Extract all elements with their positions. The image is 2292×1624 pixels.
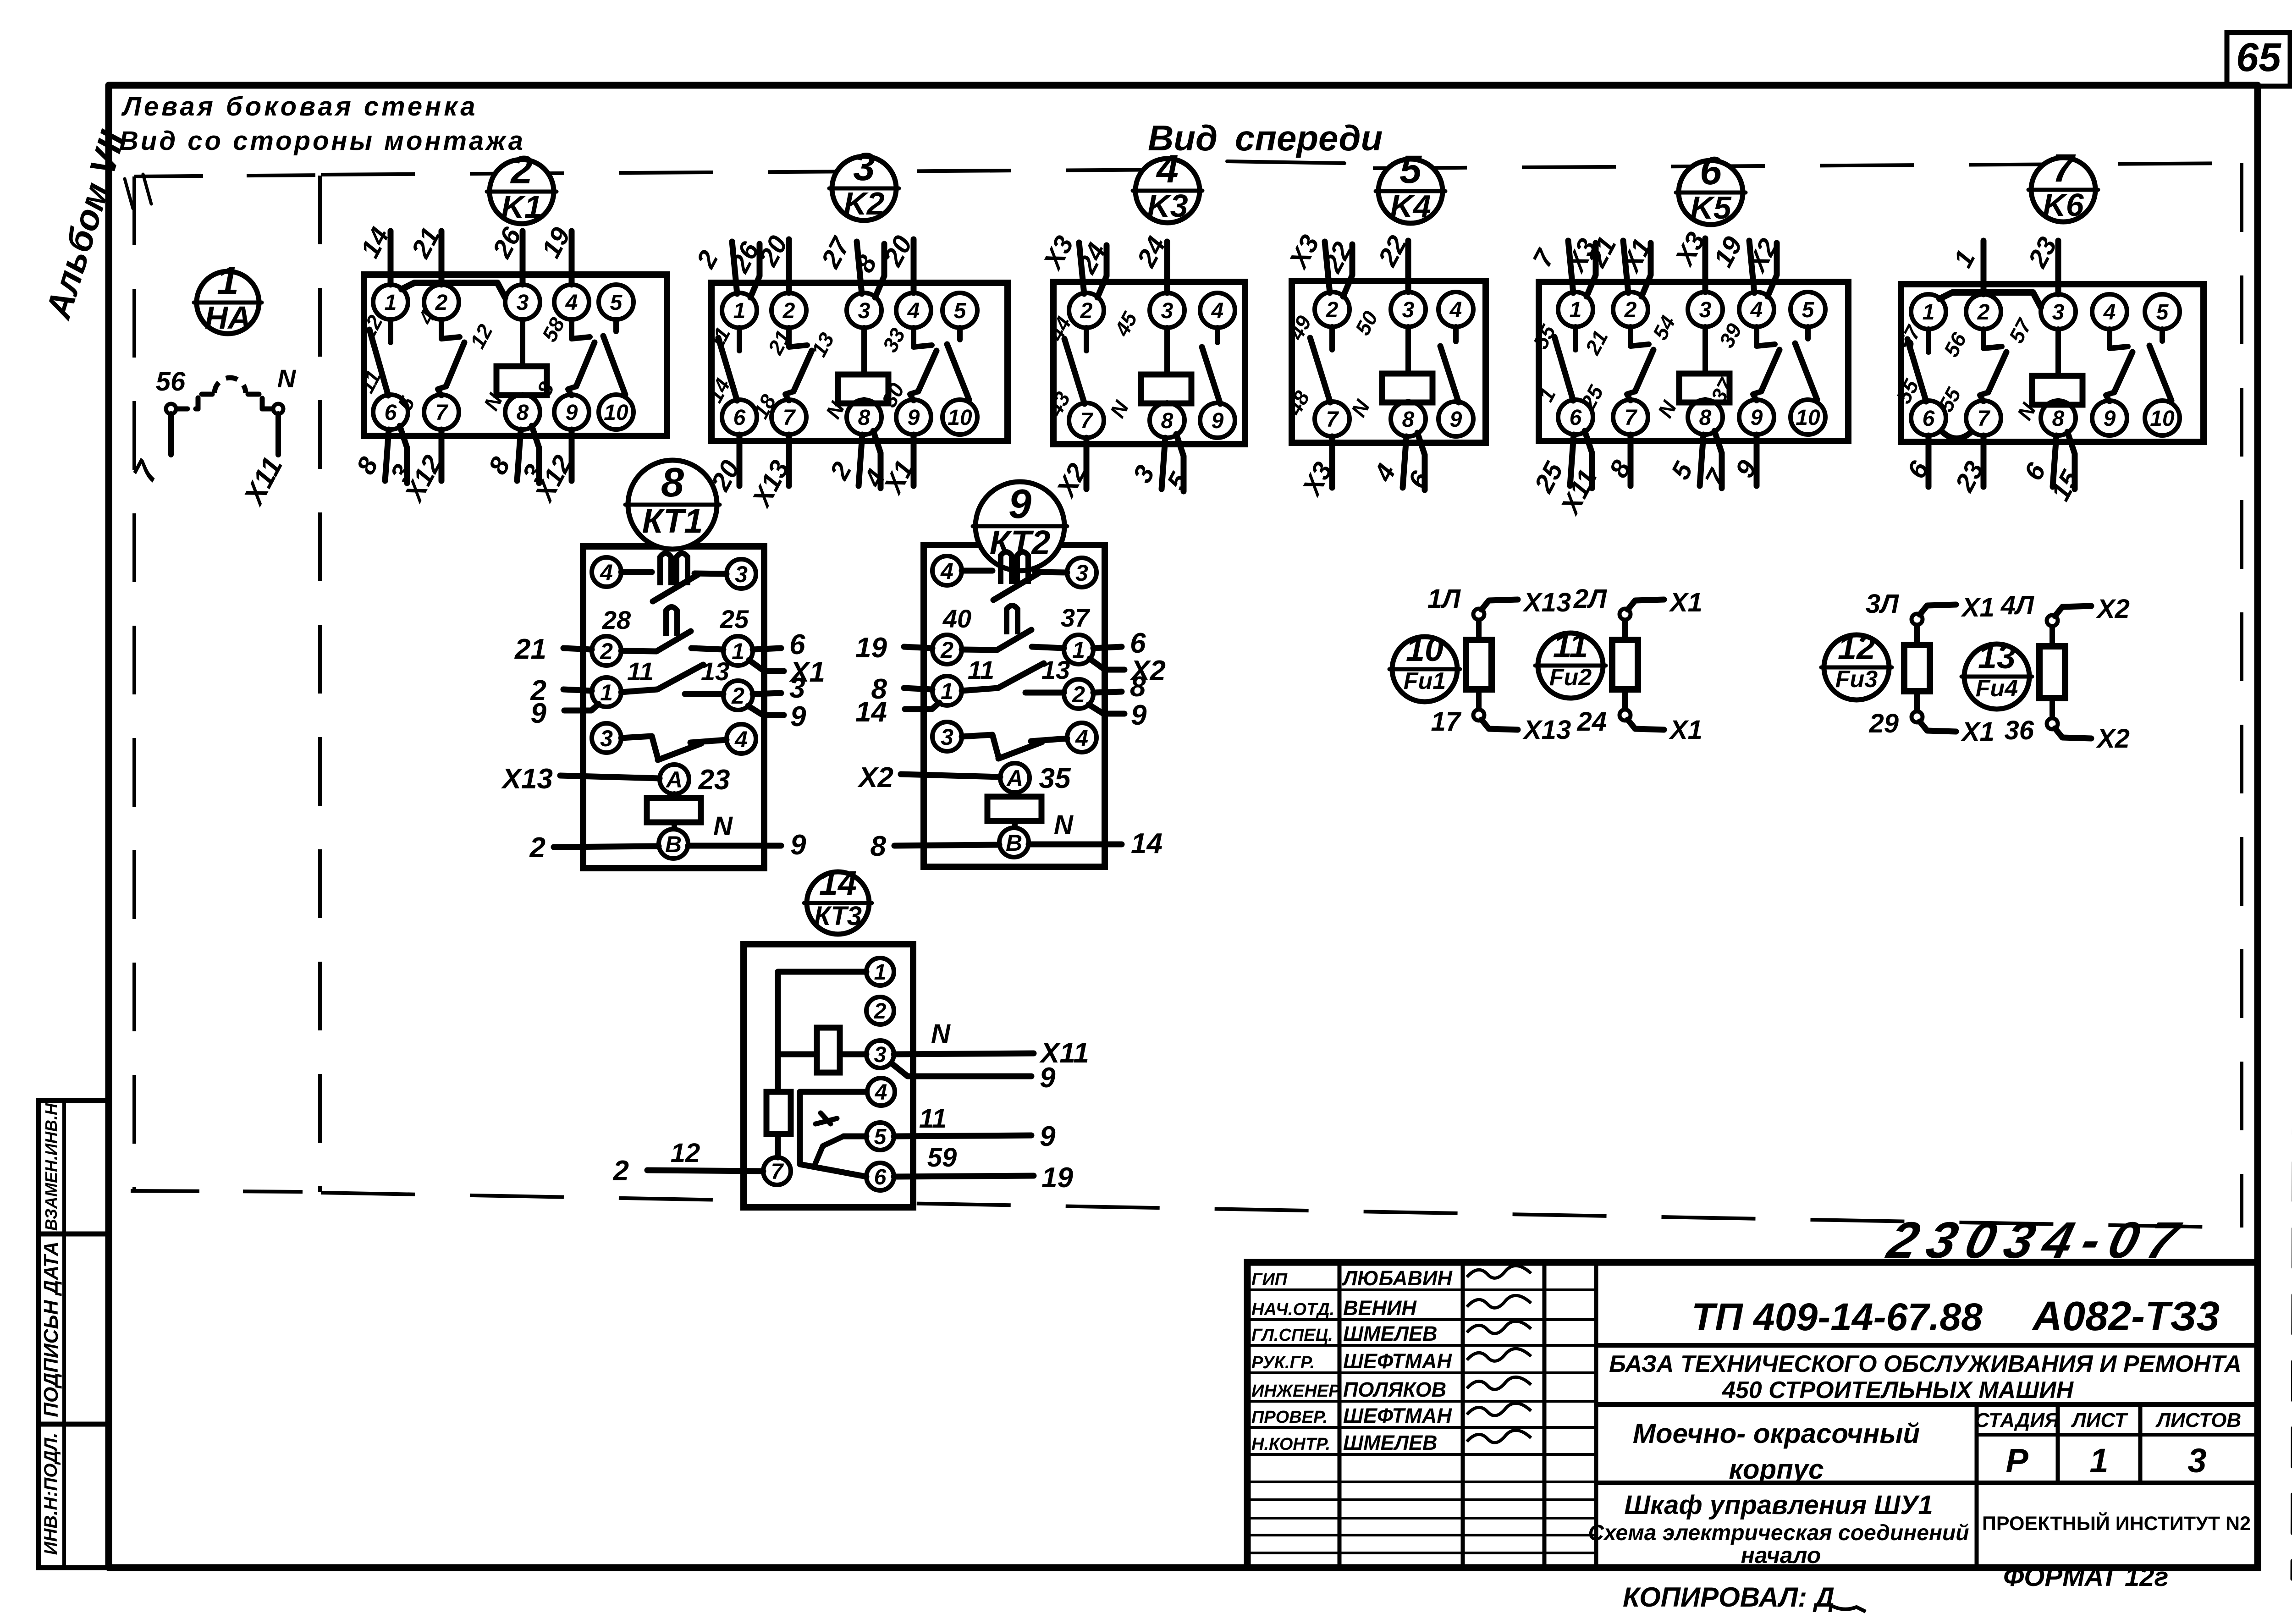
fuse Fи1 body (1466, 620, 1492, 710)
svg-text:A: A (665, 767, 683, 793)
КТ3 external wire N to X11 from pin 3 (894, 1019, 1089, 1069)
svg-text:2: 2 (782, 299, 795, 323)
КТ1 contact terminal 3 (lower row) (592, 723, 621, 753)
svg-text:2: 2 (1080, 299, 1093, 323)
K4 contact 2-7 (1310, 327, 1332, 402)
svg-text:ЛЮБАВИН: ЛЮБАВИН (1342, 1266, 1453, 1290)
fuse Fи1 bottom wire to X13 (1431, 707, 1571, 745)
svg-text:ИНЖЕНЕР: ИНЖЕНЕР (1251, 1382, 1340, 1401)
svg-text:2: 2 (1072, 682, 1085, 707)
svg-text:3: 3 (858, 299, 871, 323)
svg-text:2: 2 (435, 291, 448, 315)
КТ3 terminal 7 (763, 1157, 791, 1185)
КТ1 wire 2 into pin 1 (530, 675, 592, 706)
svg-text:1Л: 1Л (1427, 584, 1461, 614)
svg-text:N: N (277, 364, 297, 393)
svg-text:4: 4 (734, 727, 748, 752)
fuse Fи3 body (1904, 625, 1930, 711)
svg-text:КТ3: КТ3 (814, 901, 862, 931)
svg-text:3: 3 (1699, 298, 1712, 322)
svg-text:ШЕФТМАН: ШЕФТМАН (1343, 1404, 1452, 1427)
КТ1 contact terminal 1 (left, wires 2,9) (592, 677, 621, 707)
svg-text:1: 1 (600, 680, 613, 705)
K3 contact 4-9 (1202, 328, 1220, 404)
svg-text:37: 37 (1061, 603, 1091, 632)
svg-text:14: 14 (855, 696, 887, 728)
КТ2 coil terminal A (wire X2) (1000, 763, 1030, 793)
time relay КТ2 designator bubble 9/КТ2 (973, 481, 1067, 571)
svg-text:8: 8 (2052, 407, 2065, 431)
svg-text:5: 5 (1802, 298, 1815, 322)
relay K3 designator bubble 4/K3 (1133, 147, 1202, 224)
svg-text:ПРОЕКТНЫЙ ИНСТИТУТ N2: ПРОЕКТНЫЙ ИНСТИТУТ N2 (1982, 1512, 2251, 1535)
svg-text:24: 24 (1576, 707, 1607, 737)
K3 contact 2-7 (1064, 328, 1086, 404)
svg-text:Н.КОНТР.: Н.КОНТР. (1251, 1435, 1330, 1454)
svg-text:2: 2 (529, 832, 545, 864)
HA terminal N (273, 404, 283, 414)
title divider under document codes (1596, 1343, 2258, 1348)
svg-text:7: 7 (1625, 406, 1638, 430)
svg-text:3: 3 (600, 726, 613, 751)
КТ2 contact terminal 1 (left, wires 8,14) (932, 676, 962, 705)
K2 top wire 20 at pin 4 (878, 231, 918, 293)
time relay КТ3 block outline (744, 944, 913, 1207)
relay K3 block outline (1053, 282, 1245, 444)
title divider under object name (1596, 1402, 2258, 1407)
K4 terminal 9 (1438, 402, 1473, 436)
K6 terminal 8 (2041, 401, 2076, 435)
КТ1 contact terminal 4 (top row) (592, 557, 621, 587)
svg-text:КТ1: КТ1 (642, 502, 703, 540)
КТ1 stub into pin 1 (691, 648, 723, 650)
КТ3 external wire 59 - 19 from pin 6 (894, 1143, 1073, 1194)
svg-text:8: 8 (1161, 409, 1174, 433)
svg-text:9: 9 (790, 701, 806, 732)
svg-text:14: 14 (1131, 828, 1163, 859)
K1 top wire 26 at pin 3 (487, 222, 527, 285)
K1 terminal 1 (373, 285, 408, 319)
relay K4 designator bubble 5/K4 (1376, 148, 1445, 224)
КТ2 wire 19 into pin 2 (855, 632, 932, 664)
КТ1 wire X13 into terminal A (501, 763, 660, 795)
КТ3 terminal 2 (866, 997, 894, 1024)
svg-text:13: 13 (701, 657, 729, 686)
svg-text:1: 1 (217, 259, 239, 303)
КТ2 wire X2 into terminal A (857, 762, 1000, 793)
K6 terminal 4 (2092, 294, 2127, 329)
svg-text:6: 6 (874, 1165, 887, 1189)
svg-text:4: 4 (875, 1080, 887, 1105)
K5 terminal 3 (1688, 292, 1723, 327)
fuse Fи3 top terminal (1912, 614, 1923, 625)
svg-text:ШМЕЛЕВ: ШМЕЛЕВ (1343, 1322, 1438, 1345)
K5 contact 4-9 (1757, 327, 1775, 346)
svg-text:3: 3 (853, 145, 875, 189)
svg-text:3: 3 (1161, 299, 1174, 323)
svg-text:35: 35 (1039, 763, 1071, 794)
K1 terminal 7 (424, 395, 459, 429)
K2 terminal 7 (771, 400, 806, 435)
K3 top wires X3,24 (1037, 231, 1112, 297)
K5 terminal 9 (1739, 400, 1774, 435)
svg-text:КОПИРОВАЛ: Д: КОПИРОВАЛ: Д (1623, 1582, 1835, 1613)
svg-text:K2: K2 (843, 186, 885, 221)
K6 top wire 1 at pin 2 (1948, 241, 1983, 294)
K4 coil (1382, 327, 1432, 402)
K6 internal jumper 6-7 (1940, 430, 1972, 439)
svg-text:12: 12 (1838, 628, 1875, 666)
K4 bottom wires 4,6 (1368, 433, 1435, 494)
stamp box Взамен.инв.N (39, 1101, 109, 1234)
K1 contact 1-6 (388, 319, 393, 342)
КТ1 contact terminal 1 (right, wires 6,X1) (723, 636, 753, 666)
fuse Fи3 top wire to X1 (1866, 589, 1994, 622)
K5 coil (1679, 327, 1730, 402)
svg-text:1: 1 (733, 299, 746, 323)
svg-text:2: 2 (1977, 300, 1990, 325)
КТ2 contact terminal 4 (top row) (932, 556, 962, 585)
K6 internal jumper 1-3 (1939, 292, 2041, 307)
K1 contact 4-9 (572, 319, 590, 339)
title row ГЛ.СПЕЦ. ШМЕЛЕВ (1251, 1321, 1531, 1345)
relay K2 block outline (711, 283, 1008, 441)
КТ2 contact terminal 2 (left, wire 19) (932, 635, 962, 664)
КТ1 delayed contact symbol top (621, 553, 727, 601)
fuse Fи2 bottom terminal (1620, 710, 1631, 721)
svg-text:1: 1 (1570, 298, 1582, 322)
svg-text:X1: X1 (1669, 588, 1702, 617)
svg-text:Fи2: Fи2 (1549, 664, 1592, 691)
footer КОПИРОВАЛ (1623, 1582, 1866, 1613)
fuse Fи3 designator bubble 12/Fи3 (1821, 628, 1892, 700)
dashed outline left side wall panel (131, 175, 320, 1192)
K6 terminal 7 (1966, 401, 2001, 435)
relay K6 block outline (1901, 284, 2204, 442)
K1 terminal 8 (505, 395, 540, 429)
КТ2 lower contact blade (962, 735, 1067, 759)
svg-text:7: 7 (1326, 407, 1339, 432)
HA wire 7 (168, 414, 174, 455)
КТ2 wire 8 from pin 2 (1093, 671, 1146, 703)
K6 terminal 1 (1911, 294, 1946, 329)
K5 bottom wires 5,7 at pin 8 (1665, 431, 1733, 492)
fuse Fи4 top terminal (2047, 615, 2058, 626)
КТ3 terminal 1 (866, 958, 894, 985)
svg-text:450 СТРОИТЕЛЬНЫХ МАШИН: 450 СТРОИТЕЛЬНЫХ МАШИН (1722, 1377, 2074, 1404)
КТ2 contact terminal 2 (right, wires 8,9) (1064, 679, 1093, 709)
svg-text:36: 36 (2004, 716, 2034, 745)
K6 terminal 9 (2092, 401, 2127, 435)
K5 bottom wire 8 at pin 7 (1603, 435, 1637, 486)
K5 contact 1-6 (1573, 327, 1578, 350)
svg-text:5: 5 (2156, 300, 2169, 325)
svg-text:ГЛ.СПЕЦ.: ГЛ.СПЕЦ. (1251, 1326, 1333, 1345)
K5 terminal 8 (1688, 400, 1723, 435)
title row НАЧ.ОТД. ВЕНИН (1251, 1295, 1531, 1320)
K2 terminal 3 (847, 293, 882, 328)
album label Альбом VII (38, 126, 151, 324)
svg-text:8: 8 (661, 460, 684, 506)
КТ2 stub into right pin 2 (1025, 690, 1064, 696)
svg-text:14: 14 (819, 864, 857, 902)
svg-text:N: N (713, 811, 733, 841)
svg-text:9: 9 (1008, 481, 1031, 527)
КТ2 wire 14 into pin 1 (855, 696, 939, 728)
svg-text:3: 3 (1402, 298, 1415, 322)
svg-text:2Л: 2Л (1573, 584, 1607, 614)
relay K6 designator bubble 7/K6 (2028, 146, 2098, 223)
K2 terminal 5 (942, 293, 977, 328)
fuse Fи2 bottom wire to X1 (1576, 707, 1702, 745)
relay K1 designator bubble 2/K1 (487, 148, 556, 225)
K6 contact 5-10 (2149, 329, 2171, 401)
svg-text:3: 3 (789, 672, 805, 704)
КТ2 stub into pin 1 (1032, 647, 1064, 648)
svg-text:A: A (1006, 765, 1023, 791)
svg-text:Fи3: Fи3 (1835, 666, 1878, 693)
K4 terminal 2 (1315, 292, 1350, 327)
КТ2 contact terminal 4 (lower row) (1067, 723, 1096, 752)
КТ1 stub into right pin 2 (685, 691, 723, 697)
КТ1 wire from pin 2 to blade (621, 651, 656, 651)
annunciator HA designator bubble 1/НА (194, 259, 262, 336)
svg-text:11: 11 (627, 657, 654, 686)
K1 coil (496, 319, 547, 395)
K1 bottom wire X12 at pin 7 (398, 429, 447, 507)
fuse Fи4 designator bubble 13/Fи4 (1961, 638, 2032, 709)
K1 contact 5-10 (603, 319, 625, 395)
K4 terminal 7 (1315, 402, 1350, 436)
svg-text:6: 6 (1923, 407, 1935, 431)
svg-text:K3: K3 (1147, 188, 1188, 224)
svg-text:корпус: корпус (1729, 1454, 1824, 1485)
svg-text:4Л: 4Л (2000, 590, 2034, 620)
K5 terminal 10 (1791, 400, 1825, 435)
svg-text:3: 3 (874, 1043, 887, 1067)
K5 top wires 7,X3 at pin 1 (1527, 234, 1603, 297)
stamp box Подпись и дата (39, 1234, 109, 1424)
K6 terminal 10 (2145, 401, 2180, 435)
K2 terminal 2 (771, 293, 806, 328)
svg-text:2: 2 (613, 1155, 629, 1187)
svg-text:2: 2 (874, 999, 887, 1024)
svg-text:2: 2 (1326, 298, 1339, 322)
K2 coil (838, 328, 888, 403)
K2 top wires 2,26 at pin 1 (691, 237, 765, 297)
K6 top wire 23 at pin 3 (2022, 232, 2063, 294)
K5 bottom wire 9 at pin 9 (1730, 435, 1763, 486)
svg-text:X2: X2 (2096, 594, 2130, 624)
svg-text:8: 8 (871, 831, 887, 862)
title row РУК.ГР. ШЕФТМАН (1251, 1349, 1531, 1373)
svg-text:K1: K1 (501, 189, 542, 225)
svg-text:8: 8 (1699, 406, 1712, 430)
svg-text:13: 13 (1041, 655, 1070, 684)
svg-text:B: B (1006, 830, 1022, 856)
svg-text:А082-ТЗ3: А082-ТЗ3 (2032, 1294, 2220, 1339)
K5 terminal 1 (1558, 292, 1593, 327)
КТ1 contact terminal 2 (right, wires 3,9) (723, 681, 753, 710)
K5 terminal 4 (1739, 292, 1774, 327)
svg-text:7: 7 (2052, 146, 2076, 190)
svg-text:Вид со стороны монтажа: Вид со стороны монтажа (119, 126, 525, 156)
K3 bottom wire X2 (1050, 438, 1092, 502)
svg-text:65: 65 (2236, 34, 2281, 80)
КТ3 coil (778, 1028, 866, 1073)
K6 terminal 5 (2145, 294, 2180, 329)
svg-text:10: 10 (1406, 630, 1444, 668)
K1 terminal 9 (554, 395, 589, 429)
svg-text:7: 7 (783, 406, 796, 430)
K4 terminal 3 (1391, 292, 1426, 327)
K1 top wire 14 at pin 1 (355, 223, 395, 285)
svg-text:11: 11 (919, 1104, 947, 1134)
svg-text:X2: X2 (857, 762, 893, 793)
svg-text:4: 4 (1075, 725, 1088, 751)
fuse Fи3 bottom terminal (1912, 711, 1923, 722)
time relay КТ1 block outline (583, 546, 764, 868)
svg-text:3: 3 (1075, 560, 1088, 586)
svg-text:59: 59 (927, 1143, 957, 1173)
svg-text:ШЕФТМАН: ШЕФТМАН (1343, 1349, 1452, 1373)
КТ2 wire from pin 2 to blade (962, 650, 997, 650)
svg-text:4: 4 (1211, 299, 1224, 323)
svg-text:3: 3 (2052, 300, 2065, 325)
svg-text:9: 9 (1450, 407, 1462, 432)
K3 terminal 7 (1069, 403, 1104, 438)
page number box 65 (2227, 33, 2290, 86)
svg-text:X2: X2 (2096, 724, 2130, 754)
svg-text:Моечно- окрасочный: Моечно- окрасочный (1633, 1418, 1920, 1449)
title row ПРОВЕР. ШЕФТМАН (1251, 1403, 1531, 1427)
K3 coil (1141, 328, 1191, 403)
K1 top wire 19 at pin 4 (536, 223, 576, 285)
svg-text:8: 8 (858, 406, 871, 430)
time relay КТ2 block outline (924, 545, 1105, 867)
svg-text:4: 4 (1750, 298, 1763, 322)
svg-text:9: 9 (1751, 406, 1763, 430)
КТ3 external wire 2 - 12 into pin 7 (613, 1138, 763, 1187)
КТ3 delayed contact at pin 5 (815, 1113, 866, 1164)
relay K5 block outline (1539, 282, 1848, 441)
svg-text:21: 21 (514, 633, 546, 665)
K2 terminal 10 (942, 400, 977, 435)
K6 terminal 2 (1966, 294, 2001, 329)
КТ3 internal bus wire from pin 1 (778, 972, 866, 1092)
svg-text:4: 4 (565, 291, 578, 315)
КТ1 wire 6 from pin 1 (753, 629, 805, 661)
svg-text:9: 9 (2104, 407, 2116, 431)
K4 contact 4-9 (1440, 327, 1459, 402)
K6 bottom wire 6 at pin 6 (1901, 435, 1935, 487)
svg-text:1: 1 (941, 678, 953, 704)
КТ1 wire 9 from pin 2 (748, 701, 806, 732)
K3 bottom wires 3,5 (1127, 434, 1195, 495)
svg-text:K6: K6 (2043, 187, 2084, 223)
КТ2 wire 9 from pin 2 (1089, 699, 1147, 731)
fuse Fи1 top wire to X13 (1427, 584, 1571, 617)
K5 top wires 21,X1 at pin 2 (1582, 232, 1658, 297)
svg-text:5: 5 (954, 299, 967, 323)
K2 contact 2-7 (789, 328, 807, 347)
svg-text:Р: Р (2005, 1442, 2028, 1480)
КТ2 contact terminal 1 (right, wires 6,X2) (1064, 635, 1093, 664)
title row Н.КОНТР. ШМЕЛЕВ (1251, 1430, 1531, 1454)
K4 terminal 8 (1391, 402, 1426, 436)
svg-text:7: 7 (435, 401, 449, 425)
fuse Fи4 body (2039, 626, 2065, 718)
K6 terminal 6 (1911, 401, 1946, 435)
fuse Fи1 designator bubble 10/Fи1 (1389, 630, 1460, 702)
КТ3 terminal 5 (866, 1123, 894, 1150)
K6 contact 1-6 (1926, 329, 1931, 352)
K2 bottom wire X13 at pin 7 (746, 435, 795, 512)
КТ1 wire 21 into pin 2 (514, 633, 592, 665)
svg-text:НА: НА (204, 300, 251, 336)
svg-text:4: 4 (940, 558, 953, 584)
svg-text:ЛИСТ: ЛИСТ (2071, 1409, 2128, 1431)
svg-text:7: 7 (1080, 409, 1094, 433)
K4 terminal 4 (1438, 292, 1473, 327)
svg-text:9: 9 (1040, 1121, 1056, 1152)
relay K5 designator bubble 6/K5 (1676, 149, 1746, 226)
fuse Fи2 top wire to X1 (1573, 584, 1702, 617)
svg-text:9: 9 (566, 401, 578, 425)
КТ3 terminal 3 (866, 1040, 894, 1068)
КТ3 terminal 6 (866, 1163, 894, 1190)
K2 bottom wires 2,4 at pin 8 (824, 431, 891, 492)
svg-text:N: N (1054, 810, 1074, 840)
heading Вид спереди (1148, 118, 1383, 163)
svg-text:ВЕНИН: ВЕНИН (1343, 1296, 1417, 1320)
svg-text:ПРОВЕР.: ПРОВЕР. (1251, 1408, 1328, 1427)
annunciator HA bell symbol (176, 378, 274, 409)
K1 internal jumper 1-3 (402, 283, 505, 297)
svg-text:6: 6 (1570, 406, 1582, 430)
КТ2 wire 8 into pin 1 (871, 673, 932, 705)
K2 bottom wire 20 at pin 6 (705, 435, 745, 496)
K5 terminal 2 (1613, 292, 1648, 327)
КТ1 coil terminal A (wire X13) (660, 765, 689, 794)
K5 bottom wires 25,X11 at pin 6 (1528, 431, 1603, 520)
КТ1 contact terminal 3 (top row) (727, 559, 756, 589)
svg-text:11: 11 (968, 655, 994, 684)
КТ3 external wire 11 - 9 from pin 5 (894, 1104, 1056, 1152)
svg-text:3: 3 (517, 291, 529, 315)
svg-text:X13: X13 (1522, 588, 1571, 617)
fuse Fи4 bottom wire to X2 (2004, 716, 2129, 754)
K4 top wires X3,22 (1283, 230, 1358, 297)
K1 terminal 2 (424, 285, 459, 319)
svg-text:9: 9 (531, 698, 547, 729)
КТ2 wire 6 from pin 1 (1093, 628, 1146, 659)
svg-text:19: 19 (1041, 1162, 1073, 1194)
title block left table grid (1247, 1262, 1596, 1568)
svg-text:1: 1 (874, 960, 887, 985)
svg-text:5: 5 (1399, 148, 1422, 192)
K2 terminal 4 (896, 293, 931, 328)
svg-text:РУК.ГР.: РУК.ГР. (1251, 1353, 1315, 1372)
svg-text:X1: X1 (1961, 717, 1994, 747)
svg-text:40: 40 (942, 604, 971, 633)
svg-text:начало: начало (1741, 1542, 1821, 1568)
svg-text:19: 19 (855, 632, 887, 664)
svg-text:4: 4 (907, 299, 920, 323)
svg-text:11: 11 (1553, 627, 1588, 665)
КТ2 coil (987, 793, 1041, 828)
fuse Fи2 body (1612, 620, 1638, 710)
